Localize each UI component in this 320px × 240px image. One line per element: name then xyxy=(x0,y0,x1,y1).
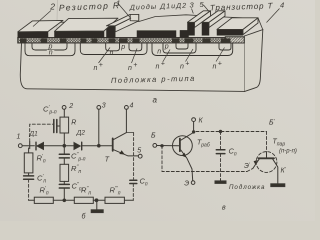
svg-text:4: 4 xyxy=(280,1,284,10)
svg-text:n: n xyxy=(128,65,132,72)
contact window 6 xyxy=(109,38,116,42)
svg-text:n: n xyxy=(213,64,217,71)
wire: node A branch down through C''p-n, R''p, C''p xyxy=(63,146,65,201)
terminal B (base) xyxy=(153,144,157,148)
dashed net: B' corner down to Tpar base xyxy=(266,132,268,153)
electrode 5 bar (front face) xyxy=(202,22,209,35)
resistor R'p body (vertical) xyxy=(24,153,33,173)
svg-text:5: 5 xyxy=(137,148,141,155)
svg-text:+: + xyxy=(161,61,165,68)
electrode 1 strip side face xyxy=(115,14,139,32)
leader line of callout 3 xyxy=(192,9,194,14)
substrate top-right corner edge xyxy=(258,18,263,30)
svg-text:2: 2 xyxy=(49,2,55,12)
electrode 1 strip end cap xyxy=(130,14,139,21)
transistor T base bar xyxy=(112,138,114,151)
capacitor C''p-n plates xyxy=(59,154,69,158)
transistor Tpar base bar xyxy=(259,157,275,159)
svg-text:а: а xyxy=(153,96,158,105)
transistor Tpar emitter arrow xyxy=(254,160,258,165)
leader line of callout 4 xyxy=(267,9,280,23)
electrode 3 bar (front face) xyxy=(188,22,195,35)
transistor T collector wire to terminal 4 xyxy=(114,109,127,139)
contact window 1 xyxy=(20,38,27,42)
terminal E (emitter) xyxy=(191,181,195,185)
terminal 2 xyxy=(62,106,66,110)
svg-text:n: n xyxy=(49,50,53,57)
svg-text:n: n xyxy=(110,50,114,57)
svg-text:n: n xyxy=(180,64,184,71)
resistor R body xyxy=(60,117,69,133)
svg-text:(п-р-п): (п-р-п) xyxy=(279,149,297,155)
leader line of callout 5 xyxy=(204,5,210,12)
svg-text:+: + xyxy=(218,61,222,68)
svg-text:+: + xyxy=(133,62,137,69)
svg-text:1: 1 xyxy=(17,134,21,141)
p-region anode of D1 xyxy=(106,43,120,51)
contact window 4 xyxy=(81,38,87,42)
capacitor C'p-n plates xyxy=(54,120,57,133)
electrode 4 collector plate (front face) xyxy=(217,29,243,35)
dashed link from node 1 to C'p-n xyxy=(30,124,53,141)
label p (transistor base) xyxy=(164,44,171,49)
transistor Trab emitter arrow xyxy=(182,153,187,158)
dashed wire: collector node down to Cp xyxy=(133,133,135,179)
svg-text:p: p xyxy=(164,44,169,51)
svg-text:n: n xyxy=(94,65,98,72)
svg-text:n: n xyxy=(157,49,161,56)
label p (resistor body) xyxy=(47,44,55,49)
junction on bus at node A branch xyxy=(63,199,66,202)
capacitor C''p plates xyxy=(59,184,69,188)
substrate p-type block front face xyxy=(20,36,244,91)
dashed net: bus to Tpar emitter lead xyxy=(247,169,253,172)
svg-text:+: + xyxy=(185,61,189,68)
terminal 5 xyxy=(138,154,142,158)
leader line n+ label 2 xyxy=(132,49,138,64)
diode D1 triangle xyxy=(37,143,44,150)
transistor Trab base bar xyxy=(179,139,181,152)
junction node B xyxy=(98,144,101,147)
leader line n+ label 1 xyxy=(99,48,111,64)
contact window 11 xyxy=(203,38,211,42)
terminal K (collector) xyxy=(192,118,196,122)
dashed wire: Cp to substrate ground xyxy=(220,154,222,179)
wire: node A up through R to terminal 2 xyxy=(63,109,65,146)
dashed net: down to capacitor Cp xyxy=(220,132,222,150)
leader line n+ label 3 xyxy=(163,50,170,62)
terminal 1 xyxy=(18,144,22,148)
junction on dashed collector net at Cp xyxy=(219,130,221,132)
metal film over diodes D1,D2 (front face) xyxy=(55,31,105,37)
ground bar under K' xyxy=(271,184,285,187)
leader line n+ label 4 xyxy=(186,49,194,62)
leader line of callout 1 xyxy=(119,4,132,19)
transistor Trab emitter wire to terminal E xyxy=(181,150,193,181)
wire: C'p-n to resistor R xyxy=(57,125,60,127)
resistor R''p body (vertical) xyxy=(60,164,69,181)
oxide bare right section (diagonal hatch) xyxy=(225,37,244,43)
contact window 12 xyxy=(221,38,231,42)
n+ collector contact region xyxy=(219,43,231,50)
wire: collector corner to Cp branch xyxy=(126,132,133,134)
svg-text:Д2: Д2 xyxy=(76,130,86,137)
resistor R'p body (bus) xyxy=(34,197,53,203)
electrode 5 bar side face xyxy=(209,11,225,28)
scan crease (faint) xyxy=(56,0,59,30)
svg-text:R: R xyxy=(71,120,76,127)
oxide layer (cross-hatched band) xyxy=(18,38,226,44)
transistor Tpar emitter lead E' xyxy=(253,159,259,168)
terminal 3 xyxy=(97,106,101,110)
n-well of transistor T xyxy=(152,43,233,56)
diode plate top face xyxy=(55,18,119,31)
wire: terminal 1 to diode D1 and D1 to node A, D2 to base xyxy=(22,145,112,147)
capacitor Cp plates xyxy=(130,180,137,183)
label n (resistor well) xyxy=(47,50,55,55)
metal film segment (front face) xyxy=(137,31,176,38)
leader line n+ label 5 xyxy=(216,48,225,62)
n-well of resistor R xyxy=(25,43,75,56)
electrode 1 strip top face xyxy=(107,14,139,25)
svg-text:Э: Э xyxy=(184,181,189,188)
ground stem xyxy=(96,200,98,210)
svg-text:p: p xyxy=(120,44,125,51)
svg-text:в: в xyxy=(222,205,226,212)
svg-text:n: n xyxy=(156,64,160,71)
contact window 8 xyxy=(133,38,140,42)
metal film of resistor R (front face) xyxy=(18,32,48,38)
dashed net: collector node to B' xyxy=(196,131,267,133)
transistor Trab collector wire to terminal K xyxy=(181,122,194,141)
resistor R''p body (bus) xyxy=(74,197,93,203)
junction node A xyxy=(63,144,66,147)
junction at collector wire xyxy=(192,131,194,133)
transistor Trab circle xyxy=(173,136,193,156)
electrode 4 plate top face xyxy=(217,18,258,30)
electrode 3 bar top face xyxy=(188,11,211,22)
leader line of callout 2 xyxy=(33,11,51,27)
contact window 9 xyxy=(172,38,180,42)
svg-text:+: + xyxy=(99,62,103,69)
dashed wire: C'p down to substrate bus xyxy=(28,179,30,200)
contact window 10 xyxy=(185,38,194,42)
contact window 3 xyxy=(60,38,67,42)
wire: node 1 branch down to R'p xyxy=(28,148,30,176)
capacitor C'p plates xyxy=(24,176,34,179)
transistor T emitter wire to terminal 5 xyxy=(114,150,139,156)
p-region base of T xyxy=(163,43,196,53)
substrate top face back edge xyxy=(33,15,250,23)
contact window 2 xyxy=(41,38,48,42)
junction tick at node 1 branch xyxy=(29,142,31,149)
transistor Tpar dashed circle xyxy=(256,152,277,173)
n+ emitter region of T xyxy=(176,43,188,49)
electrode 4 plate side face xyxy=(243,18,258,35)
ground bar (substrate) under Cp xyxy=(215,181,226,184)
svg-text:Подложка: Подложка xyxy=(229,184,265,191)
svg-text:Б: Б xyxy=(151,133,156,140)
wire: terminal B to Trab base xyxy=(157,145,179,147)
svg-text:2: 2 xyxy=(68,103,73,110)
wire: substrate bus segments xyxy=(29,199,134,201)
junction node on base wire xyxy=(161,145,163,147)
p-region resistor body xyxy=(32,43,67,50)
svg-text:4: 4 xyxy=(130,103,134,110)
capacitor Cp plates xyxy=(216,150,225,154)
wire: terminal 3 down to node B xyxy=(98,109,100,145)
electrode 5 bar top face xyxy=(202,11,225,22)
wire: Tpar base stub xyxy=(266,152,268,158)
dashed net: base node to parasitic emitter bus xyxy=(162,146,247,172)
p-region anode of D2 xyxy=(129,43,142,51)
dashed wire: Cp down to substrate bus xyxy=(132,184,134,201)
ground bar xyxy=(91,210,103,213)
diode D1 cathode bar xyxy=(35,142,37,150)
svg-text:Т: Т xyxy=(105,157,110,164)
svg-text:3: 3 xyxy=(102,103,106,110)
resistor R slab top face (electrode 2) xyxy=(18,20,63,31)
electrode 1 riser (front face) xyxy=(107,26,116,38)
substrate right side face xyxy=(244,30,262,92)
contact window 7 xyxy=(119,38,128,42)
diode D2 triangle xyxy=(74,143,80,150)
transistor T emitter arrow xyxy=(119,150,125,154)
diode D2 cathode bar xyxy=(81,142,83,150)
metal film short segment (front face) xyxy=(180,30,189,37)
n-well of diodes D1,D2 xyxy=(80,43,147,55)
terminal 4 xyxy=(125,106,129,110)
ground stem under Cp xyxy=(220,179,222,181)
svg-text:Д1: Д1 xyxy=(29,131,39,138)
resistor R'''p body (bus) xyxy=(105,197,124,203)
transistor Tpar collector lead K' xyxy=(273,159,278,184)
contact window 5 xyxy=(92,38,98,42)
electrode 3 bar side face xyxy=(195,11,211,28)
junction on bus at ground xyxy=(95,199,98,202)
